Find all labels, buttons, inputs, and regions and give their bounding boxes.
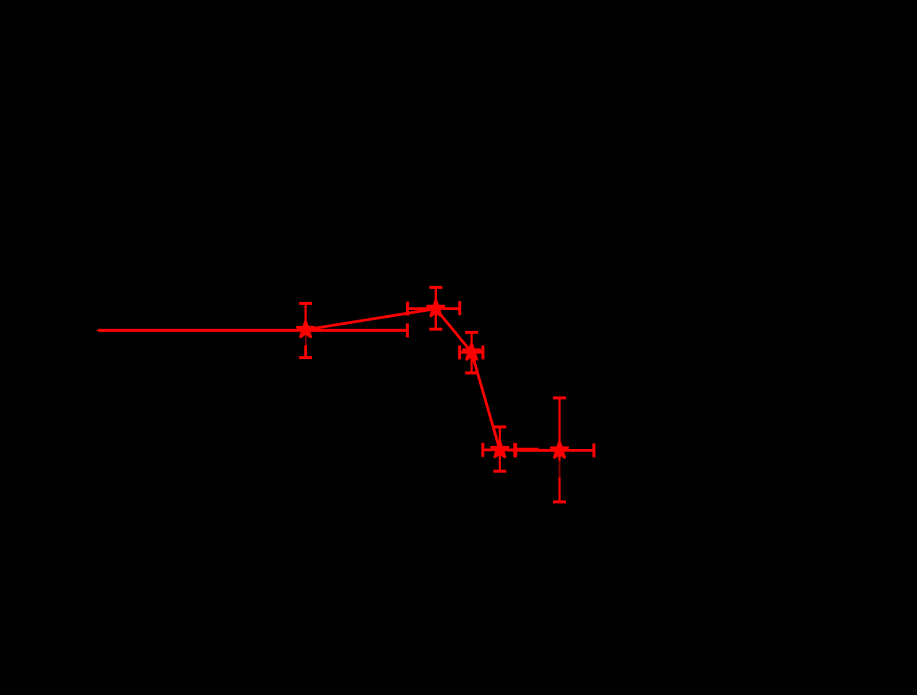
- P2 star marker: [428, 300, 444, 316]
- P3 y error top cap: [465, 331, 478, 334]
- P3 y error bar line: [471, 332, 473, 373]
- P5 y error bar line upper: [558, 398, 560, 451]
- P4-P5 overlap thick segment: [516, 448, 539, 450]
- P2 y error top cap: [429, 286, 442, 289]
- P4 x error left cap: [481, 443, 484, 457]
- P4 x error right cap: [513, 443, 516, 457]
- P4 x error bar line: [483, 448, 515, 451]
- P1 y error bottom cap: [299, 356, 312, 359]
- P3 x error right cap: [481, 345, 484, 359]
- P2 x error right cap: [458, 301, 461, 315]
- P2 y error bar line: [435, 287, 437, 329]
- P5 y error bar line below star bright: [558, 454, 560, 461]
- P5 star marker: [551, 442, 567, 458]
- P1 star marker: [297, 321, 313, 337]
- P1 y error bar line lower bright: [304, 345, 307, 357]
- P3 y error bottom cap: [465, 371, 478, 374]
- P4 y error bottom cap: [493, 470, 506, 473]
- P2 y error bottom cap: [429, 328, 442, 331]
- P5 x error right cap: [592, 443, 595, 457]
- connecting line P2-P3: [436, 309, 472, 353]
- P3 x error left cap: [458, 345, 461, 359]
- P1 y error bar line lower thin dark: [305, 336, 307, 346]
- P4 star marker: [492, 441, 508, 457]
- P3 star marker: [463, 344, 479, 360]
- P5 y error bottom cap: [553, 500, 566, 503]
- P1 y error top cap: [299, 302, 312, 305]
- P3 x error bar line: [460, 351, 483, 354]
- P5 x error bar line: [516, 449, 594, 452]
- P4 y error bar line: [499, 427, 501, 471]
- P5 y error bar line dark segment: [559, 461, 561, 479]
- P5 y error top cap: [553, 396, 566, 399]
- P1 x error bar line: [99, 329, 408, 332]
- P2 x error left cap: [406, 302, 409, 316]
- connecting line P4-P5: [500, 448, 560, 451]
- connecting line P1-P2: [306, 309, 436, 330]
- P5 y error bar line lower bright: [558, 478, 560, 502]
- P2 x error bar line: [408, 307, 460, 310]
- connecting line P3-P4: [472, 352, 500, 450]
- P5 x error left cap: [514, 443, 517, 457]
- P1 x error right cap: [406, 323, 409, 337]
- P1 y error bar line upper: [305, 303, 307, 330]
- P1 x error left arrow tip: [96, 329, 101, 333]
- P4 y error top cap: [493, 425, 506, 428]
